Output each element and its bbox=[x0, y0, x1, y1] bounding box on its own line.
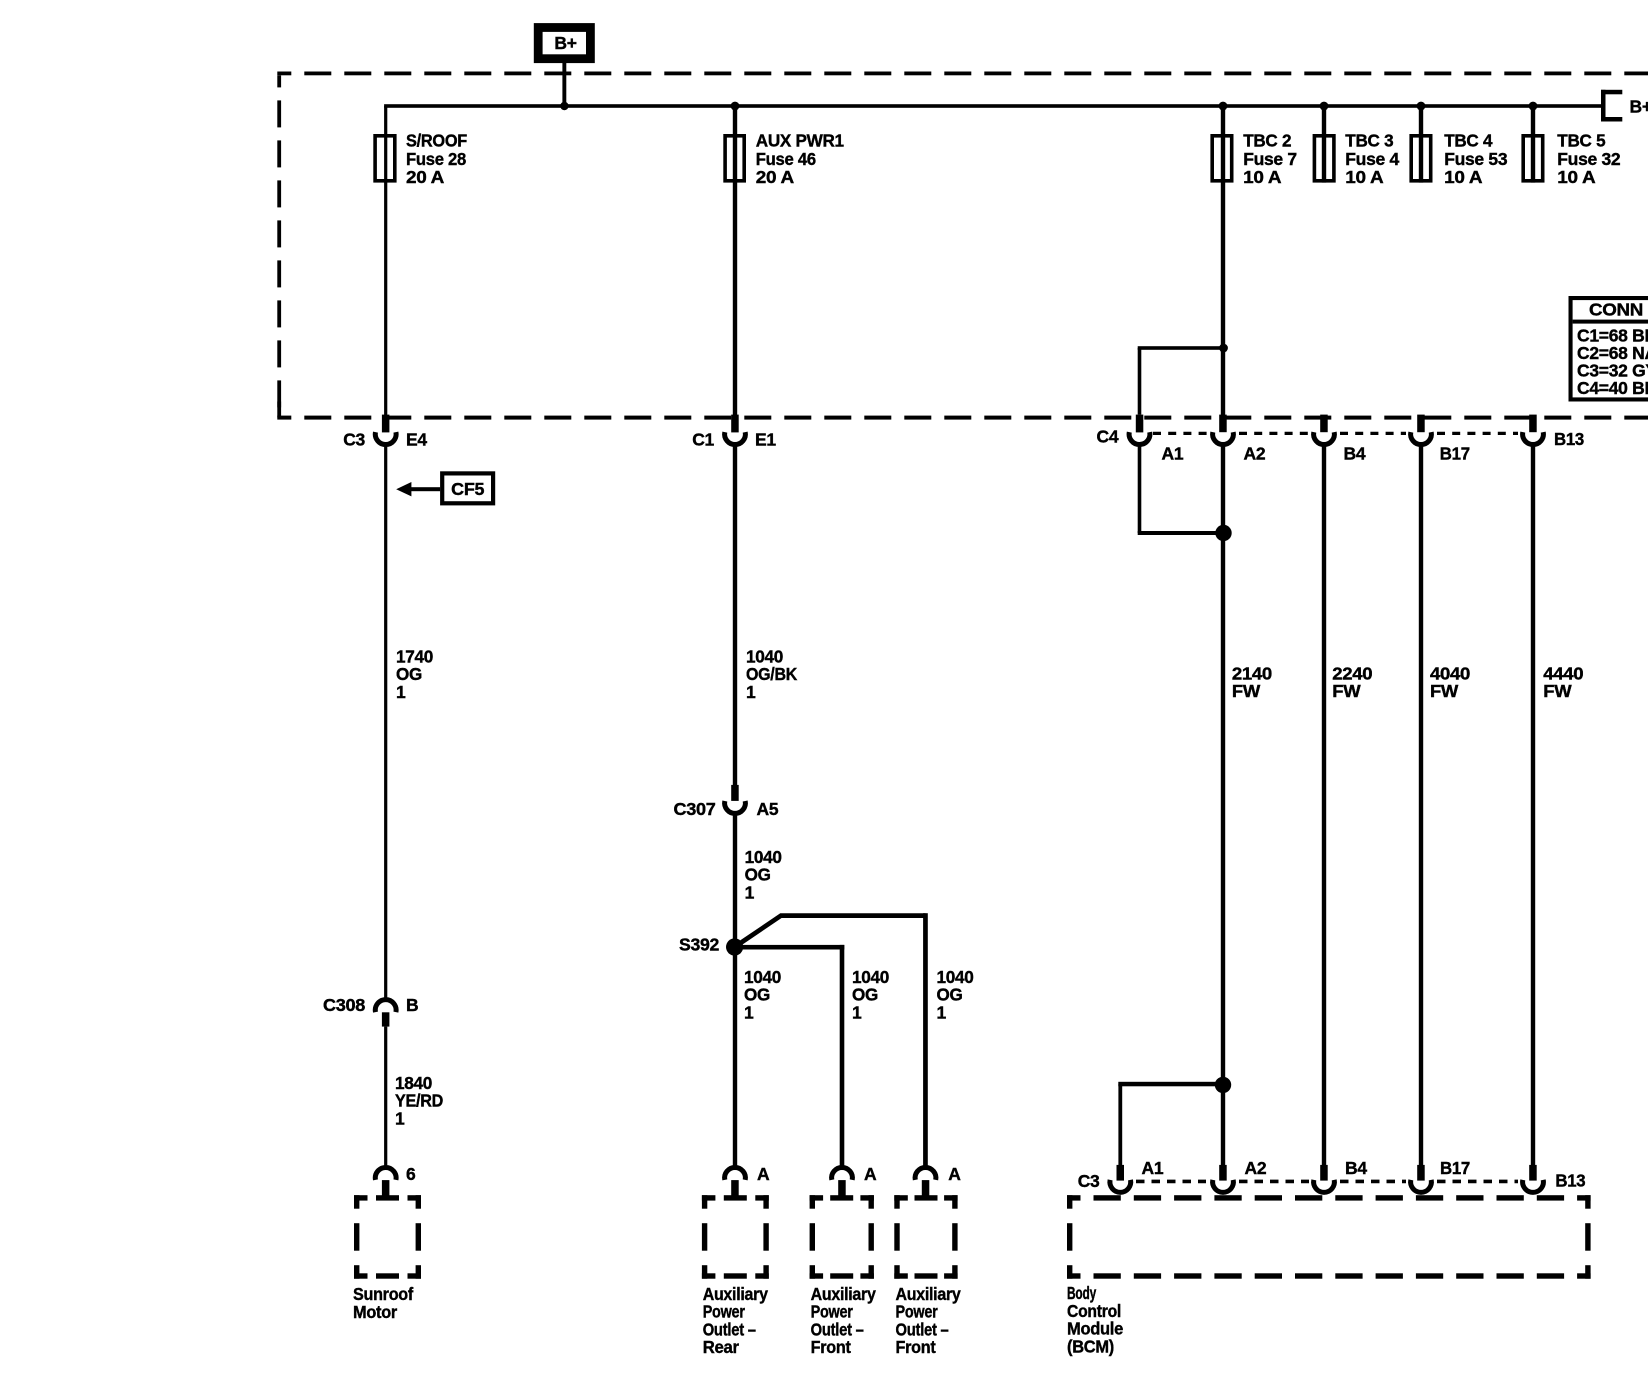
connector pin A at front outlet 2 bbox=[915, 1164, 961, 1197]
junction dot at TBC4 tap bbox=[1417, 102, 1426, 111]
fuse TBC 3 Fuse 4 10 A bbox=[1314, 131, 1399, 188]
svg-text:A2: A2 bbox=[1244, 444, 1266, 464]
connector pin B4 (top row) bbox=[1314, 415, 1366, 464]
wire S/ROOF fuse to connector C3 bbox=[384, 181, 387, 416]
svg-text:C4=40 BK: C4=40 BK bbox=[1577, 378, 1648, 398]
svg-text:Front: Front bbox=[811, 1337, 851, 1357]
junction dot BCM A1 branch bbox=[1215, 1077, 1231, 1093]
CONN table (connector legend) bbox=[1569, 296, 1648, 402]
svg-text:S392: S392 bbox=[679, 935, 720, 955]
power symbol B+ (battery positive feed) bbox=[534, 23, 595, 63]
connector pin A2 (BCM) bbox=[1213, 1158, 1267, 1192]
svg-text:FW: FW bbox=[1430, 681, 1459, 701]
wire 1040 OG 1 (S392 to rear outlet) bbox=[733, 955, 782, 1166]
svg-text:B13: B13 bbox=[1555, 1171, 1586, 1191]
wire bus to TBC 3 fuse bbox=[1322, 106, 1326, 183]
connector pin B13 (BCM) bbox=[1523, 1165, 1586, 1192]
svg-text:Fuse 32: Fuse 32 bbox=[1557, 149, 1621, 169]
connector C307 pin A5 bbox=[674, 785, 779, 819]
wire 1040 OG 1 (C307 to splice S392) bbox=[733, 813, 782, 947]
wire bus to TBC 4 fuse bbox=[1419, 106, 1423, 183]
wire branch to BCM pin A1 bbox=[1118, 1082, 1223, 1166]
wire 4040 FW (B17 to BCM) bbox=[1419, 444, 1471, 1165]
svg-text:1: 1 bbox=[937, 1002, 947, 1022]
wire bus to AUX PWR1 fuse bbox=[733, 106, 737, 183]
svg-text:B: B bbox=[406, 995, 418, 1015]
wire 2240 FW (B4 to BCM) bbox=[1322, 444, 1373, 1165]
svg-text:FW: FW bbox=[1543, 681, 1572, 701]
wire loop to connector C4 (upper L) bbox=[1138, 346, 1224, 414]
svg-text:Fuse 28: Fuse 28 bbox=[406, 149, 467, 169]
svg-text:1: 1 bbox=[744, 1002, 754, 1022]
svg-text:B+: B+ bbox=[554, 33, 576, 53]
svg-text:Fuse 4: Fuse 4 bbox=[1345, 149, 1399, 169]
svg-text:B17: B17 bbox=[1440, 444, 1470, 464]
svg-text:C307: C307 bbox=[674, 799, 716, 819]
svg-text:B17: B17 bbox=[1440, 1158, 1470, 1178]
svg-text:1: 1 bbox=[395, 1108, 405, 1128]
svg-text:E4: E4 bbox=[406, 430, 427, 450]
junction dot at TBC2 tap bbox=[1219, 102, 1228, 111]
junction dot at TBC3 tap bbox=[1320, 102, 1329, 111]
junction dot TBC2/C4 loop bottom bbox=[1215, 525, 1231, 541]
svg-text:C1: C1 bbox=[692, 430, 714, 450]
svg-text:1: 1 bbox=[852, 1002, 862, 1022]
connector C3 pin A1 (BCM) bbox=[1078, 1158, 1164, 1192]
svg-text:TBC 4: TBC 4 bbox=[1444, 131, 1493, 151]
dashed box: fuse block (bottom border) bbox=[277, 416, 1648, 420]
wire splice S392 branch to front outlet 2 (diagonal and top run) bbox=[735, 913, 928, 1166]
svg-text:Fuse 46: Fuse 46 bbox=[756, 149, 817, 169]
svg-text:Fuse 7: Fuse 7 bbox=[1243, 149, 1297, 169]
component box: Auxiliary Power Outlet - Front 2 bbox=[894, 1195, 961, 1357]
wire bus to TBC 2 fuse bbox=[1221, 106, 1225, 183]
connector C3 pin E4 bbox=[343, 415, 427, 450]
svg-text:B4: B4 bbox=[1345, 1158, 1367, 1178]
junction dot TBC2/C4 loop top bbox=[1219, 344, 1228, 353]
wire from B+ symbol to bus bbox=[562, 63, 566, 106]
svg-text:A2: A2 bbox=[1245, 1158, 1267, 1178]
svg-text:FW: FW bbox=[1232, 681, 1261, 701]
svg-text:A: A bbox=[757, 1164, 770, 1184]
fuse AUX PWR1 Fuse 46 20 A bbox=[725, 131, 844, 188]
fuse TBC 5 Fuse 32 10 A bbox=[1523, 131, 1621, 188]
label CF5 with arrow bbox=[396, 473, 493, 503]
label 1040 OG 1 (front outlet 2 branch) bbox=[937, 967, 975, 1022]
svg-text:TBC 5: TBC 5 bbox=[1557, 131, 1606, 151]
label 1040 OG 1 (front outlet 1 branch) bbox=[852, 967, 890, 1022]
B+ bus wire bbox=[384, 104, 1603, 108]
component box: Body Control Module (BCM) bbox=[1067, 1195, 1591, 1356]
svg-text:TBC 3: TBC 3 bbox=[1345, 131, 1394, 151]
connector row dotted line (BCM C3) bbox=[1136, 1180, 1518, 1184]
svg-text:1: 1 bbox=[746, 682, 756, 702]
svg-text:AUX PWR1: AUX PWR1 bbox=[756, 131, 845, 151]
junction dot at TBC5 tap bbox=[1529, 102, 1538, 111]
svg-text:1: 1 bbox=[396, 682, 406, 702]
connector pin B13 (top row) bbox=[1523, 415, 1585, 449]
svg-text:B4: B4 bbox=[1344, 444, 1366, 464]
svg-text:Fuse 53: Fuse 53 bbox=[1444, 149, 1508, 169]
svg-text:10 A: 10 A bbox=[1243, 167, 1282, 187]
fuse TBC 4 Fuse 53 10 A bbox=[1411, 131, 1508, 188]
wire bus to S/ROOF fuse bbox=[384, 106, 387, 183]
svg-text:C3: C3 bbox=[1078, 1171, 1100, 1191]
svg-text:C3: C3 bbox=[343, 430, 365, 450]
svg-text:6: 6 bbox=[406, 1164, 416, 1184]
svg-text:C4: C4 bbox=[1097, 427, 1119, 447]
fuse S/ROOF Fuse 28 20 A bbox=[375, 131, 467, 188]
svg-text:A1: A1 bbox=[1142, 1158, 1164, 1178]
connector pin A2 (top row) bbox=[1213, 415, 1266, 464]
svg-text:C308: C308 bbox=[323, 995, 366, 1015]
wire 1740 OG 1 (C3 to C308) bbox=[384, 444, 433, 998]
svg-text:(BCM): (BCM) bbox=[1067, 1336, 1114, 1356]
svg-text:Motor: Motor bbox=[353, 1302, 397, 1322]
wire splice S392 branch to front outlet 1 (horizontal run) bbox=[735, 945, 845, 1166]
junction dot at B+ drop bbox=[560, 102, 568, 110]
connector pin B4 (BCM) bbox=[1314, 1158, 1368, 1192]
connector C1 pin E1 bbox=[692, 415, 776, 450]
connector pin B17 (BCM) bbox=[1411, 1158, 1470, 1192]
wire TBC2 fuse down through C4 row bbox=[1221, 181, 1225, 432]
connector pin B17 (top row) bbox=[1411, 415, 1470, 464]
wire 1040 OG/BK 1 (C1 to C307) bbox=[733, 444, 798, 785]
svg-text:B+: B+ bbox=[1630, 97, 1648, 117]
svg-text:1: 1 bbox=[745, 882, 755, 902]
svg-text:FW: FW bbox=[1332, 681, 1361, 701]
component box: Auxiliary Power Outlet - Front 1 bbox=[810, 1195, 877, 1357]
splice S392 bbox=[679, 935, 743, 956]
svg-text:CONN: CONN bbox=[1589, 300, 1643, 320]
svg-text:TBC 2: TBC 2 bbox=[1243, 131, 1292, 151]
connector pin A at rear outlet bbox=[725, 1164, 770, 1197]
svg-text:CF5: CF5 bbox=[451, 479, 485, 499]
wire bus to TBC 5 fuse bbox=[1531, 106, 1535, 183]
connector C308 pin B bbox=[323, 995, 418, 1027]
svg-text:E1: E1 bbox=[755, 430, 776, 450]
svg-text:Front: Front bbox=[896, 1337, 936, 1357]
junction dot at AUX PWR1 tap bbox=[731, 102, 740, 111]
wire AUX PWR1 fuse to connector C1 bbox=[733, 181, 737, 416]
fuse TBC 2 Fuse 7 10 A bbox=[1212, 131, 1297, 188]
dashed box: fuse block (top border) bbox=[277, 72, 1648, 76]
connector pin A at front outlet 1 bbox=[832, 1164, 877, 1197]
svg-text:10 A: 10 A bbox=[1444, 167, 1483, 187]
wire 4440 FW (B13 to BCM) bbox=[1531, 444, 1584, 1165]
power tap B+ (right bracket) bbox=[1601, 90, 1648, 122]
wire 1840 YE/RD 1 (C308 to sunroof motor) bbox=[384, 1027, 443, 1167]
svg-text:S/ROOF: S/ROOF bbox=[406, 131, 468, 151]
connector C4 pin A1 bbox=[1097, 415, 1184, 464]
wire A2 dot to BCM pin A2 bbox=[1221, 1085, 1225, 1165]
wire from C4 pin A1 back to TBC2 wire (lower L) bbox=[1138, 444, 1224, 535]
component box: Auxiliary Power Outlet - Rear bbox=[702, 1195, 769, 1357]
svg-text:20 A: 20 A bbox=[756, 167, 795, 187]
svg-text:10 A: 10 A bbox=[1557, 167, 1596, 187]
svg-text:B13: B13 bbox=[1554, 429, 1585, 449]
connector row dotted line (fuse block bottom, C4) bbox=[1153, 432, 1518, 435]
svg-text:A1: A1 bbox=[1162, 444, 1184, 464]
svg-text:Sunroof: Sunroof bbox=[353, 1284, 413, 1304]
svg-text:Rear: Rear bbox=[703, 1337, 739, 1357]
svg-text:10 A: 10 A bbox=[1345, 167, 1384, 187]
svg-text:A5: A5 bbox=[757, 799, 779, 819]
component box: Sunroof Motor bbox=[353, 1195, 421, 1322]
svg-text:A: A bbox=[948, 1164, 961, 1184]
wire 2140 FW (A2 to BCM) bbox=[1221, 444, 1273, 1084]
svg-text:A: A bbox=[864, 1164, 877, 1184]
dashed box: fuse block (left border) bbox=[277, 75, 281, 417]
svg-text:20 A: 20 A bbox=[406, 167, 445, 187]
connector pin 6 at sunroof motor bbox=[375, 1164, 416, 1197]
